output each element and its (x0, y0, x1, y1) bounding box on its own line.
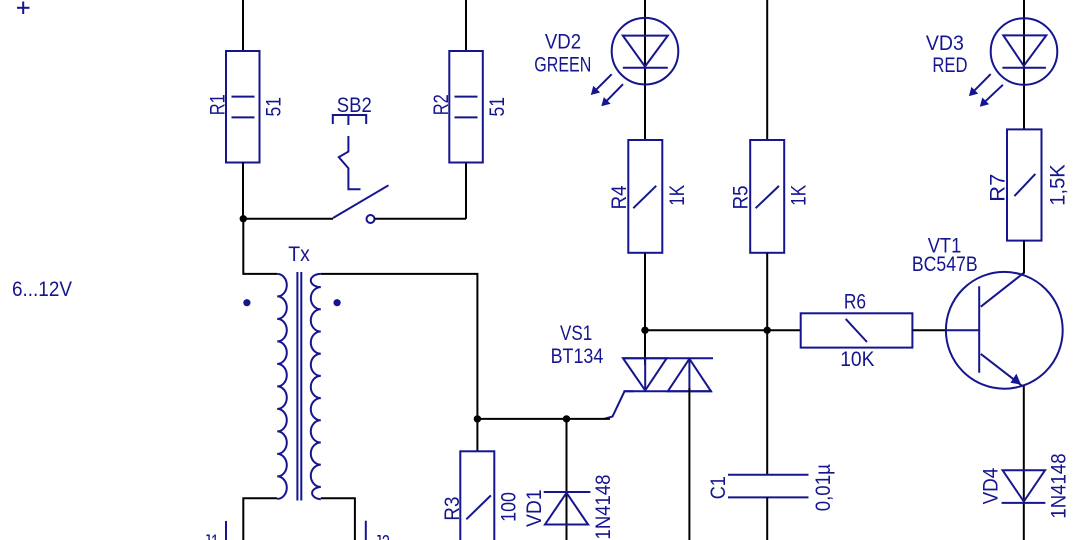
connector J2 (366, 521, 390, 540)
junction node R4 rail (641, 327, 648, 334)
svg-text:1N4148: 1N4148 (1048, 453, 1071, 518)
polarity dot primary (243, 299, 250, 306)
wire R1 bottom (242, 163, 244, 219)
LED VD3 (926, 18, 1057, 107)
wire R2 top (465, 0, 467, 51)
svg-text:BC547B: BC547B (912, 253, 978, 276)
resistor R2 (430, 51, 509, 163)
svg-text:GREEN: GREEN (534, 53, 591, 76)
transformer core (296, 272, 298, 501)
svg-text:51: 51 (486, 97, 509, 117)
secondary winding (311, 274, 321, 499)
wire junction to switch (243, 218, 333, 220)
svg-text:R5: R5 (730, 185, 753, 209)
wire VD2 rail (644, 0, 646, 140)
svg-text:R1: R1 (207, 94, 230, 115)
svg-text:1,5K: 1,5K (1046, 164, 1069, 206)
svg-text:100: 100 (498, 492, 521, 522)
svg-text:R3: R3 (441, 497, 464, 521)
svg-text:10K: 10K (840, 348, 874, 371)
wire R6 to VT1 base (912, 329, 946, 331)
svg-text:1K: 1K (666, 185, 689, 206)
diode VD1 (523, 475, 615, 540)
resistor R4 (608, 140, 689, 253)
node plus terminal (17, 2, 30, 15)
wire R1 top (242, 0, 244, 51)
svg-text:R2: R2 (430, 94, 453, 115)
junction node R5 rail (764, 327, 771, 334)
svg-text:0,01µ: 0,01µ (812, 464, 835, 511)
wire VD1 vertical (566, 419, 568, 540)
diode VD4 (980, 453, 1071, 518)
resistor R6 (801, 291, 913, 371)
connector J1 (204, 521, 227, 540)
svg-text:1K: 1K (787, 185, 810, 206)
svg-text:6...12V: 6...12V (12, 278, 72, 301)
resistor R5 (730, 140, 811, 253)
svg-text:J1: J1 (204, 531, 220, 540)
svg-text:VD2: VD2 (545, 30, 581, 53)
resistor R3 (441, 451, 521, 540)
wire R5 top rail (766, 0, 768, 140)
capacitor C1 (707, 464, 835, 511)
pushbutton SB2 (333, 94, 389, 223)
wire gate rail (645, 329, 801, 331)
junction node R3 (474, 415, 481, 422)
svg-text:R7: R7 (987, 174, 1010, 202)
wire VD3 rail top (1023, 0, 1025, 129)
wire R5 bottom to C1 (766, 253, 768, 475)
wire secondary top to R3 rail (321, 274, 478, 451)
svg-text:BT134: BT134 (551, 345, 604, 368)
svg-text:VD1: VD1 (523, 489, 546, 527)
transistor VT1 (912, 234, 1063, 388)
svg-text:VS1: VS1 (560, 322, 592, 345)
triac VS1 (551, 322, 713, 419)
wire triac top (644, 330, 646, 365)
wire emitter to VD4 (1023, 386, 1025, 540)
primary winding (277, 274, 287, 499)
svg-text:VD4: VD4 (980, 467, 1003, 504)
svg-text:RED: RED (932, 54, 967, 77)
transformer Tx (243, 243, 340, 501)
wire junction down to transformer (243, 219, 277, 274)
svg-text:C1: C1 (707, 476, 730, 499)
svg-text:R4: R4 (608, 185, 631, 209)
svg-text:51: 51 (263, 97, 286, 117)
svg-text:1N4148: 1N4148 (592, 475, 615, 540)
svg-text:SB2: SB2 (337, 94, 372, 117)
resistor R1 (207, 51, 286, 163)
svg-text:VD3: VD3 (926, 32, 964, 55)
wire primary bottom to J1 (243, 498, 277, 540)
junction node at R1 bottom (240, 215, 247, 222)
wire triac bottom (688, 388, 690, 540)
wire secondary bottom to J2 (321, 498, 355, 540)
resistor R7 (987, 129, 1070, 240)
svg-text:J2: J2 (374, 532, 390, 540)
polarity dot secondary (334, 299, 341, 306)
wire R7 to collector (1023, 241, 1025, 274)
wire gate horizontal rail (477, 418, 610, 420)
LED VD2 (534, 18, 678, 106)
svg-text:R6: R6 (844, 291, 866, 314)
junction node VD1 (563, 415, 570, 422)
wire R4 bottom (644, 253, 646, 330)
svg-text:Tx: Tx (288, 243, 310, 266)
wire C1 bottom (766, 497, 768, 540)
wire switch to R2 (375, 218, 466, 220)
